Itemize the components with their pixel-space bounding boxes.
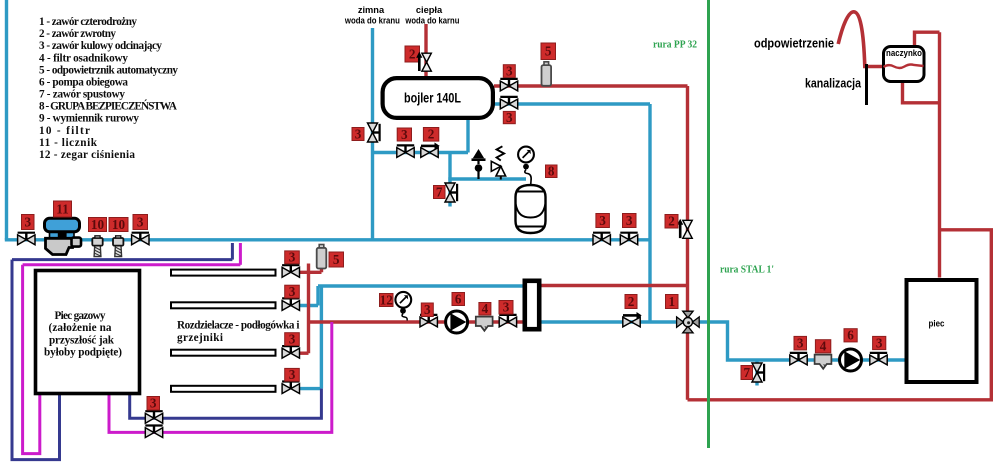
wire red pump line y322 xyxy=(309,320,523,323)
gauge of GRUPA BEZPIECZENSTWA xyxy=(518,147,534,185)
svg-text:grzejniki: grzejniki xyxy=(177,332,223,344)
odpowietrznik 5 on boiler hot line xyxy=(542,62,552,86)
wire navy future-piec horizontal xyxy=(12,258,232,261)
wire magenta floor-heating return xyxy=(109,322,332,432)
label 3 piec circuit right xyxy=(873,335,886,350)
svg-text:3: 3 xyxy=(424,302,431,317)
svg-text:7 - zawór spustowy: 7 - zawór spustowy xyxy=(39,89,125,101)
label 3 radiator 3 xyxy=(285,332,300,347)
drain valve 7 piec circuit xyxy=(752,363,764,382)
valve 3 on magenta future line xyxy=(145,426,162,438)
label 5 boiler air vent xyxy=(541,43,556,60)
svg-text:6: 6 xyxy=(455,291,462,306)
label 3 pump line left xyxy=(421,302,433,317)
wire navy U loop left xyxy=(12,260,60,460)
svg-text:3 - zawór kulowy odcinający: 3 - zawór kulowy odcinający xyxy=(39,40,162,52)
svg-text:5: 5 xyxy=(333,252,340,267)
wire safety-group horizontal y179 xyxy=(448,177,526,180)
svg-text:3: 3 xyxy=(137,214,144,229)
svg-text:10 - filtr: 10 - filtr xyxy=(39,125,90,137)
wire rura PP32 green line xyxy=(707,0,710,448)
wire boiler feed horizontal y152 xyxy=(373,151,469,154)
automatic air vent symbol in safety group xyxy=(472,149,486,179)
valve 3 radiator 1 xyxy=(282,265,299,277)
valve 3 on navy future line xyxy=(145,411,162,423)
legend list xyxy=(39,16,178,161)
wire magenta drop to main xyxy=(239,243,242,265)
wire radiator3 stub xyxy=(299,352,309,355)
wire naczynko top bracket xyxy=(915,32,940,45)
pump 6 piec circuit xyxy=(840,349,862,371)
valve 3 boiler cold return xyxy=(500,97,517,109)
svg-text:(założenie na: (założenie na xyxy=(49,322,112,334)
wire blue riser x650 xyxy=(648,104,651,322)
svg-text:Rozdzielacze - podłogówka i: Rozdzielacze - podłogówka i xyxy=(177,320,300,332)
wire exchanger left blue y286 xyxy=(318,284,523,287)
wire ciepla woda vertical xyxy=(424,24,427,77)
label 3 boiler return xyxy=(503,110,515,125)
svg-text:12: 12 xyxy=(380,292,394,307)
wire naczynko bottom stub xyxy=(903,83,940,103)
wire safety-group drop and drain stub xyxy=(448,153,451,207)
wire radiator red riser x308 xyxy=(307,264,310,354)
wire zimna woda vertical xyxy=(371,28,374,240)
svg-text:4: 4 xyxy=(820,339,827,354)
label 10 first filter xyxy=(89,217,107,232)
svg-text:2: 2 xyxy=(628,294,635,309)
water meter 11 licznik xyxy=(45,218,82,254)
svg-text:4 - filtr osadnikowy: 4 - filtr osadnikowy xyxy=(39,52,128,64)
svg-text:3: 3 xyxy=(503,300,510,315)
odpowietrznik 5 at radiators xyxy=(317,245,327,269)
svg-text:11 - licznik: 11 - licznik xyxy=(39,137,98,149)
svg-text:naczynko: naczynko xyxy=(886,48,923,58)
check valve 2 boiler feed xyxy=(421,143,440,158)
wire magenta future-piec horizontal xyxy=(23,263,241,266)
svg-text:odpowietrzenie: odpowietrzenie xyxy=(754,36,834,51)
check valve 2 after exchanger xyxy=(623,312,642,327)
heat exchanger U1 wymiennik rurowy xyxy=(525,281,539,329)
svg-text:3: 3 xyxy=(289,250,296,265)
naczynko vessel box xyxy=(884,47,925,82)
label 3 future pair xyxy=(147,396,160,411)
label 4 piec filter xyxy=(815,339,830,354)
label 1 four-way valve xyxy=(666,294,679,309)
svg-text:piec: piec xyxy=(929,319,945,330)
svg-text:3: 3 xyxy=(506,64,513,79)
svg-text:3: 3 xyxy=(25,214,32,229)
label 3 zimna valve xyxy=(352,126,364,141)
label 3 boiler hot xyxy=(503,64,515,79)
filter 10 first xyxy=(92,236,102,257)
svg-text:bojler 140L: bojler 140L xyxy=(404,91,461,106)
check valve 2 on red vertical xyxy=(677,219,692,239)
wire main cold-water horizontal xyxy=(5,238,650,241)
svg-text:rura STAL 1': rura STAL 1' xyxy=(720,264,774,276)
svg-text:12 - zegar ciśnienia: 12 - zegar ciśnienia xyxy=(39,149,135,161)
wire kanalizacja black drain xyxy=(865,64,868,105)
label 11 licznik xyxy=(54,201,72,217)
wire boiler blue outlet y104 xyxy=(494,102,650,105)
safety relief valve in safety group xyxy=(491,146,505,179)
label 7 drain safety group xyxy=(434,184,446,199)
svg-text:3: 3 xyxy=(599,213,606,228)
wire blue y322 exchanger to piec circuit xyxy=(542,322,905,360)
valve 3 radiator 4 xyxy=(282,382,299,394)
wire magenta U loop left xyxy=(23,265,40,454)
wire radiator4 riser xyxy=(320,286,323,389)
valve 3 radiator 2 xyxy=(282,298,299,310)
svg-text:2: 2 xyxy=(668,214,675,229)
svg-text:2: 2 xyxy=(428,127,435,142)
valve 3 on zimna riser xyxy=(368,123,380,142)
pump 6 obiegowa left xyxy=(446,311,468,333)
svg-text:3: 3 xyxy=(401,127,408,142)
svg-text:3: 3 xyxy=(150,396,157,411)
piec gazowy box xyxy=(36,271,140,394)
piec gazowy caption xyxy=(44,310,122,359)
label 5 radiator air vent xyxy=(329,252,344,267)
svg-text:3: 3 xyxy=(289,367,296,382)
wire drain stub piec circuit xyxy=(755,360,758,386)
valve 3 boiler hot outlet xyxy=(500,79,517,91)
valve 3 pump line left xyxy=(420,315,437,327)
pressure gauge 12 xyxy=(395,292,411,321)
svg-text:kanalizacja: kanalizacja xyxy=(805,76,862,91)
svg-text:5 - odpowietrznik automatyczny: 5 - odpowietrznik automatyczny xyxy=(39,64,178,76)
bojler 140L tank xyxy=(383,78,493,118)
svg-text:5: 5 xyxy=(545,44,552,59)
svg-text:3: 3 xyxy=(626,213,633,228)
svg-text:Piec gazowy: Piec gazowy xyxy=(55,310,106,322)
check valve 2 on ciepla riser xyxy=(416,52,431,72)
label 3 before exchanger xyxy=(499,300,513,315)
filter 4 piec circuit xyxy=(815,355,832,369)
valve 3 piec circuit left xyxy=(790,353,807,365)
label 4 filter left xyxy=(479,301,491,316)
wire bottom red loop xyxy=(688,230,992,400)
svg-text:woda do kranu: woda do kranu xyxy=(344,16,400,26)
svg-text:8 - GRUPA BEZPIECZEŃSTWA: 8 - GRUPA BEZPIECZEŃSTWA xyxy=(39,101,177,113)
label 2 ciepla check xyxy=(405,46,420,62)
four-way valve 1 zawor czterodrozny xyxy=(677,311,700,333)
label 6 piec pump xyxy=(844,328,857,343)
wire navy drop to main xyxy=(231,243,234,260)
wire navy return from piec box xyxy=(130,389,322,419)
svg-text:byłoby podpięte): byłoby podpięte) xyxy=(44,347,122,359)
wire radiator2 riser xyxy=(316,286,319,306)
label 7 piec drain xyxy=(741,365,753,380)
label 10 second filter xyxy=(109,217,128,232)
valve 3 piec circuit right xyxy=(870,353,887,365)
svg-text:10: 10 xyxy=(112,217,126,232)
svg-text:1: 1 xyxy=(669,294,676,309)
svg-text:1 - zawór czterodrożny: 1 - zawór czterodrożny xyxy=(39,16,137,28)
label 3 main x629 xyxy=(623,213,637,228)
svg-text:3: 3 xyxy=(355,126,362,141)
drain valve 7 safety group xyxy=(445,183,457,202)
label 3 main after meter xyxy=(133,214,148,229)
label 8 grupa bezpieczenstwa xyxy=(546,164,558,179)
filter 4 osadnikowy left xyxy=(476,317,493,331)
svg-text:7: 7 xyxy=(744,365,751,380)
wire red main vertical x687 xyxy=(686,86,689,400)
svg-text:przyszłość jak: przyszłość jak xyxy=(49,334,115,346)
valve 3 main line far left xyxy=(18,233,35,245)
wire boiler hot outlet y86 xyxy=(494,84,688,87)
svg-text:3: 3 xyxy=(876,335,883,350)
svg-text:2: 2 xyxy=(409,46,416,61)
wire naczynko riser to piec xyxy=(938,32,941,277)
label 3 radiator 4 xyxy=(285,367,300,382)
radiator 2 xyxy=(171,302,276,308)
svg-text:2 - zawór zwrotny: 2 - zawór zwrotny xyxy=(39,28,116,40)
label 2 boiler feed check xyxy=(423,127,438,142)
svg-text:4: 4 xyxy=(482,301,489,316)
svg-text:ciepła: ciepła xyxy=(416,5,443,15)
wire cold-water left border riser xyxy=(5,0,8,240)
svg-text:6 - pompa obiegowa: 6 - pompa obiegowa xyxy=(39,76,128,88)
svg-text:rura PP 32: rura PP 32 xyxy=(653,39,697,51)
wire radiator2 stub xyxy=(299,304,319,307)
label 3 piec circuit left xyxy=(794,336,807,351)
svg-text:3: 3 xyxy=(289,284,296,299)
label 3 main far left xyxy=(22,214,35,229)
label 3 boiler feed xyxy=(397,127,411,142)
filter 10 second xyxy=(113,236,123,257)
valve 3 main line after meter xyxy=(132,233,149,245)
valve 3 boiler feed xyxy=(397,145,414,157)
valve 3 before exchanger xyxy=(499,315,516,327)
svg-text:zimna: zimna xyxy=(358,5,385,15)
svg-text:3: 3 xyxy=(506,110,513,125)
expansion vessel of GRUPA BEZPIECZENSTWA xyxy=(516,185,546,233)
piec box xyxy=(907,280,977,382)
svg-text:3: 3 xyxy=(797,336,804,351)
svg-text:10: 10 xyxy=(91,217,105,232)
wire boiler bottom riser xyxy=(466,118,469,153)
wire radiator1 stub and air-vent elbow xyxy=(299,268,322,273)
valve 3 main line x629 xyxy=(620,233,637,245)
svg-text:8: 8 xyxy=(548,164,555,179)
label 3 radiator 2 xyxy=(285,284,300,299)
radiator 3 xyxy=(171,350,276,356)
radiator 1 xyxy=(171,270,276,276)
label 3 radiator 1 xyxy=(285,250,300,265)
svg-text:9 - wymiennik rurowy: 9 - wymiennik rurowy xyxy=(39,113,139,125)
label 2 after exchanger xyxy=(625,294,637,309)
label 2 red vertical check xyxy=(665,214,678,229)
label 6 pump left xyxy=(452,291,465,306)
rozdzielacze caption xyxy=(177,320,300,345)
naczynko water level squiggle xyxy=(884,65,924,69)
svg-text:3: 3 xyxy=(289,332,296,347)
radiator 4 xyxy=(171,386,276,392)
wire exchanger right red y285 xyxy=(542,284,688,287)
wire odpowietrzenie hook curve xyxy=(838,12,883,67)
svg-text:7: 7 xyxy=(436,184,443,199)
valve 3 main line x601 xyxy=(593,233,610,245)
svg-text:11: 11 xyxy=(56,201,68,216)
label 3 main x601 xyxy=(596,213,610,228)
valve 3 radiator 3 xyxy=(282,346,299,358)
label 12 gauge xyxy=(380,292,394,307)
svg-text:woda do karnu: woda do karnu xyxy=(405,16,460,26)
svg-text:6: 6 xyxy=(847,328,854,343)
wire radiator4 stub xyxy=(299,387,322,390)
